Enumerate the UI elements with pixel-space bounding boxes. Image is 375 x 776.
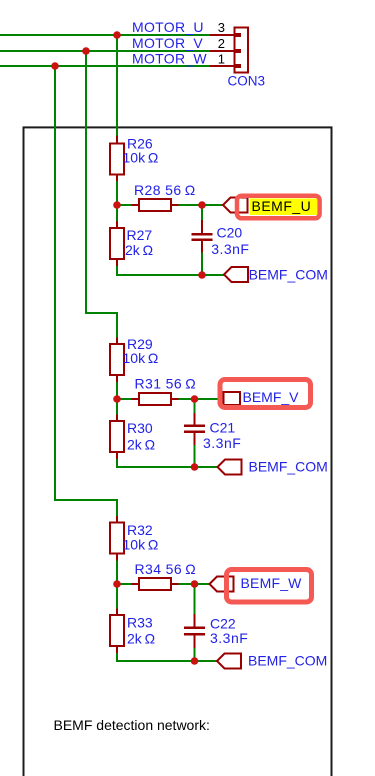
port BEMF_COM pentagon block3 <box>217 654 241 669</box>
svg-text:R28 56 Ω: R28 56 Ω <box>134 182 196 198</box>
svg-text:3.3nF: 3.3nF <box>203 435 241 451</box>
wire block1 mid row <box>117 204 223 206</box>
capacitor C22 <box>184 614 248 648</box>
resistor R32 <box>110 516 158 561</box>
resistor R31 <box>132 376 197 406</box>
junction block1 bottom <box>198 271 206 279</box>
svg-text:CON3: CON3 <box>228 74 266 89</box>
svg-text:R33: R33 <box>127 615 153 631</box>
junction block2 bottom <box>191 463 199 471</box>
svg-text:C21: C21 <box>210 420 236 436</box>
connector CON3 pin 1 <box>210 64 241 68</box>
junction MOTOR_V <box>82 47 90 55</box>
wire block1 bottom row <box>116 274 224 276</box>
wire block2 cap branch <box>194 399 196 467</box>
wire block1 cap branch <box>201 205 203 275</box>
svg-text:BEMF_W: BEMF_W <box>241 575 303 591</box>
junction block2 left <box>113 395 121 403</box>
svg-text:MOTOR_W: MOTOR_W <box>132 51 207 67</box>
wire block2 bottom row <box>116 466 218 468</box>
highlight box BEMF_U <box>237 196 320 219</box>
wire block3 cap branch <box>194 584 196 661</box>
junction MOTOR_W <box>51 62 59 70</box>
resistor R33 <box>110 609 155 654</box>
svg-text:2k Ω: 2k Ω <box>127 631 155 647</box>
resistor R26 <box>110 136 158 182</box>
highlight box BEMF_V <box>220 380 311 408</box>
capacitor C20 <box>192 220 250 257</box>
junction block1 left <box>113 201 121 209</box>
svg-text:2k Ω: 2k Ω <box>125 242 153 258</box>
svg-text:2k Ω: 2k Ω <box>127 437 155 453</box>
svg-text:MOTOR_V: MOTOR_V <box>132 35 203 51</box>
svg-text:R34 56 Ω: R34 56 Ω <box>135 561 197 577</box>
port BEMF_COM pentagon block2 <box>218 460 242 475</box>
connector CON3 pin 3 <box>210 33 241 37</box>
svg-text:MOTOR_U: MOTOR_U <box>132 19 204 35</box>
port BEMF_W pentagon <box>210 577 234 592</box>
wire block2 mid row <box>117 398 218 400</box>
svg-text:R30: R30 <box>127 420 153 436</box>
svg-text:10k Ω: 10k Ω <box>123 537 159 553</box>
junction block3 right <box>191 580 199 588</box>
svg-text:BEMF_COM: BEMF_COM <box>249 267 328 283</box>
resistor R28 <box>132 182 196 211</box>
capacitor C21 <box>184 413 241 451</box>
wire MOTOR_U vertical drop to R26 <box>116 35 118 205</box>
sheet symbol box (BEMF detection network) <box>24 127 332 776</box>
highlight box BEMF_W <box>227 570 312 603</box>
svg-text:BEMF_COM: BEMF_COM <box>249 459 328 475</box>
resistor R34 <box>132 561 197 590</box>
wire block3 left column R33 branch <box>116 584 118 661</box>
wire MOTOR_U horizontal <box>0 34 210 36</box>
junction block1 right <box>198 201 206 209</box>
wire MOTOR_V horizontal <box>0 50 210 52</box>
svg-text:3.3nF: 3.3nF <box>211 241 249 257</box>
junction block3 left <box>113 580 121 588</box>
wire block2 left column R30 branch <box>116 399 118 467</box>
wire MOTOR_W horizontal <box>0 65 210 67</box>
connector CON3 body <box>235 28 249 73</box>
wire block1 left column R27 branch <box>116 205 118 275</box>
resistor R29 <box>110 336 158 382</box>
svg-text:10k Ω: 10k Ω <box>123 150 159 166</box>
connector CON3 pin 2 <box>210 49 241 53</box>
highlight fill BEMF_U <box>250 199 317 216</box>
svg-text:BEMF_V: BEMF_V <box>243 389 300 405</box>
wire block3 bottom row <box>116 660 217 662</box>
port BEMF_COM pentagon block1 <box>224 267 248 282</box>
svg-text:1: 1 <box>218 52 225 67</box>
svg-text:BEMF detection network:: BEMF detection network: <box>54 717 210 733</box>
junction block2 right <box>191 395 199 403</box>
junction block3 bottom <box>191 657 199 665</box>
port BEMF_U pentagon <box>223 198 248 213</box>
svg-text:BEMF_U: BEMF_U <box>252 198 312 214</box>
svg-text:R31 56 Ω: R31 56 Ω <box>135 376 197 392</box>
junction MOTOR_U <box>113 31 121 39</box>
wire MOTOR_W vertical drop <box>55 66 117 584</box>
svg-text:BEMF_COM: BEMF_COM <box>248 653 327 669</box>
svg-text:2: 2 <box>218 36 225 51</box>
resistor R30 <box>110 415 155 460</box>
wire block3 mid row <box>117 583 210 585</box>
svg-text:R27: R27 <box>127 227 153 243</box>
wire MOTOR_V vertical drop <box>86 51 117 399</box>
port BEMF_V pentagon <box>224 392 241 405</box>
svg-text:3: 3 <box>218 20 225 35</box>
resistor R27 <box>110 221 153 266</box>
svg-text:10k Ω: 10k Ω <box>123 350 159 366</box>
svg-text:3.3nF: 3.3nF <box>210 630 248 646</box>
svg-text:C20: C20 <box>217 225 243 241</box>
